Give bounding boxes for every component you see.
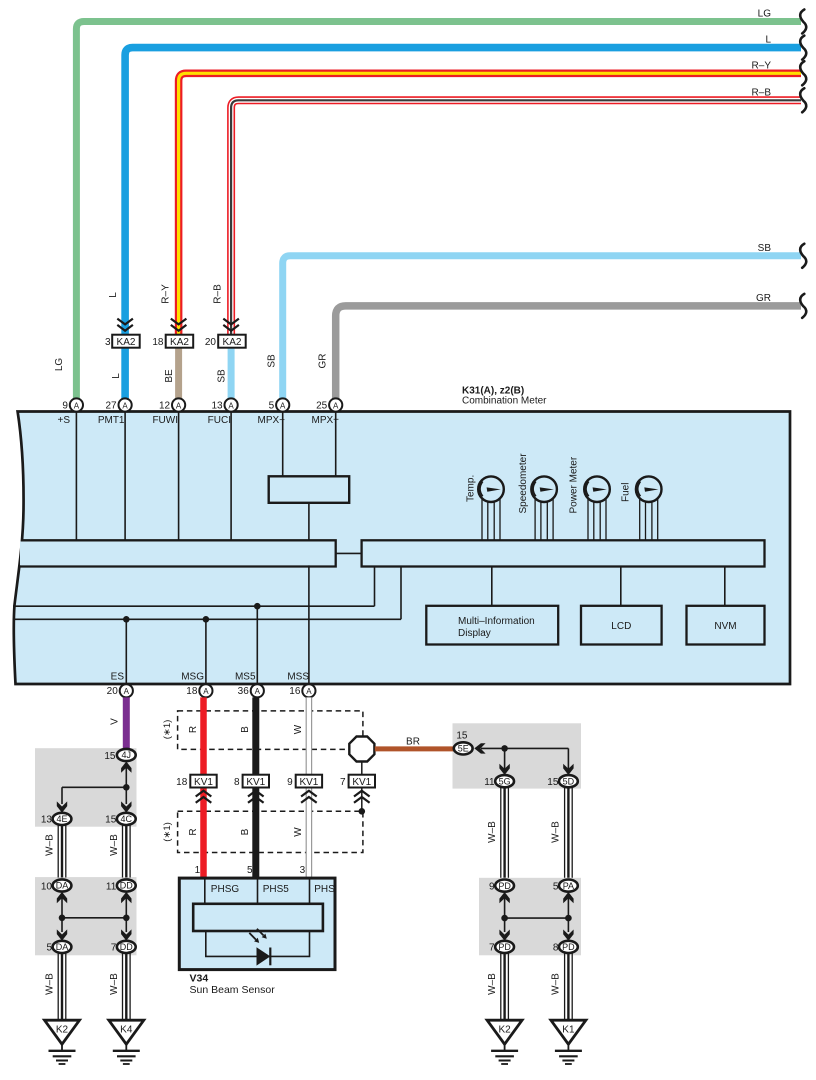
- svg-text:PD: PD: [498, 942, 511, 952]
- ground K4 left: [109, 1020, 144, 1064]
- arrow into 4C: [121, 801, 131, 812]
- wire bus to rail 2: [400, 567, 402, 620]
- svg-text:11: 11: [484, 777, 495, 788]
- svg-text:K2: K2: [56, 1025, 69, 1036]
- wire DA-DD link: [62, 898, 126, 932]
- continuation mark L: [800, 36, 806, 60]
- svg-text:10: 10: [41, 881, 53, 892]
- arrow into PD(8): [563, 930, 573, 941]
- junction 5E line: [501, 745, 508, 752]
- svg-text:3: 3: [105, 337, 111, 348]
- svg-text:A: A: [306, 687, 312, 696]
- combination meter K31(A) z2(B) body: [14, 412, 790, 685]
- svg-text:PHS: PHS: [314, 884, 335, 895]
- svg-text:12: 12: [159, 400, 171, 411]
- wire MSS internal (MPX block to pin 16): [308, 503, 310, 686]
- arrow into DD(7): [121, 929, 131, 940]
- wire W-B (PD to K2): [501, 953, 509, 1020]
- svg-text:18: 18: [176, 777, 188, 788]
- arrow into PD(9): [499, 892, 509, 903]
- wire junction to 4E branch: [62, 787, 126, 804]
- wire W (white) upper: [306, 697, 311, 775]
- svg-text:PHSG: PHSG: [211, 884, 240, 895]
- wire R-Y (red/yellow): [179, 73, 801, 335]
- octagon joint connector: [349, 737, 374, 762]
- svg-text:5E: 5E: [458, 744, 469, 754]
- svg-text:36: 36: [238, 686, 250, 697]
- svg-text:FUCI: FUCI: [208, 415, 231, 426]
- svg-text:7: 7: [111, 943, 117, 954]
- wire MPX- internal: [282, 412, 284, 476]
- option dashed box (*1) upper: [178, 711, 363, 750]
- arrow into 5D: [563, 764, 573, 775]
- svg-text:20: 20: [205, 337, 217, 348]
- svg-text:9: 9: [489, 881, 495, 892]
- svg-text:A: A: [280, 401, 286, 410]
- svg-text:R–Y: R–Y: [161, 284, 172, 304]
- junction below 4J: [123, 784, 130, 791]
- svg-text:9: 9: [62, 400, 68, 411]
- svg-text:4J: 4J: [122, 750, 132, 760]
- internal bus bar (right): [362, 540, 765, 566]
- svg-text:KV1: KV1: [246, 777, 265, 788]
- bus link wire: [336, 552, 362, 554]
- svg-text:LCD: LCD: [611, 621, 631, 632]
- svg-text:7: 7: [489, 943, 495, 954]
- connector KV1 (pin 7): [340, 775, 375, 788]
- svg-text:DD: DD: [120, 881, 133, 891]
- svg-text:DA: DA: [56, 881, 69, 891]
- svg-text:A: A: [333, 401, 339, 410]
- pin 36 (MS5): [238, 684, 264, 697]
- connector KV1 (pin 9): [287, 775, 322, 788]
- svg-text:15: 15: [104, 751, 116, 762]
- pin 12 (FUWI): [152, 398, 185, 426]
- junction PA link: [565, 915, 572, 922]
- rail 1: [13, 605, 375, 607]
- connector PD-7: [489, 941, 514, 954]
- connector 5G: [484, 775, 514, 788]
- svg-text:K1: K1: [562, 1025, 575, 1036]
- wire FUWI internal: [178, 412, 180, 540]
- svg-text:R–B: R–B: [752, 87, 772, 98]
- svg-text:PD: PD: [498, 881, 511, 891]
- wire bus to Multi-Information Display: [491, 567, 493, 606]
- svg-text:A: A: [203, 687, 209, 696]
- wires Speedometer gauge to bus: [535, 497, 553, 540]
- wire SB (sky blue): [283, 256, 801, 399]
- connector 4E: [41, 813, 72, 826]
- continuation mark R-Y: [800, 61, 806, 85]
- wire KV1 pin7 to dashed box: [361, 788, 363, 812]
- svg-text:R–Y: R–Y: [752, 60, 772, 71]
- svg-text:PHS5: PHS5: [263, 884, 290, 895]
- wire octagon to KV1 pin7: [361, 762, 363, 775]
- svg-text:4E: 4E: [56, 814, 67, 824]
- svg-text:3: 3: [300, 865, 306, 876]
- wire W-B (5D to PA): [565, 788, 573, 878]
- svg-text:SB: SB: [267, 354, 278, 368]
- pin 13 (FUCI): [208, 398, 238, 426]
- svg-text:L: L: [108, 292, 119, 298]
- svg-text:MS5: MS5: [235, 672, 256, 683]
- junction PD link: [501, 915, 508, 922]
- wires Power Meter gauge to bus: [588, 497, 606, 540]
- connector KV1 arrow (pin 9): [301, 791, 317, 803]
- svg-text:W: W: [293, 724, 304, 734]
- svg-text:L: L: [765, 35, 771, 46]
- wire bus to LCD: [620, 567, 622, 606]
- svg-text:KA2: KA2: [223, 337, 242, 348]
- junction DD link: [123, 915, 130, 922]
- svg-text:GR: GR: [756, 293, 771, 304]
- connector KA2 (pin 18): [152, 335, 193, 348]
- junction MS5: [254, 603, 261, 610]
- wire GR (gray): [336, 306, 801, 399]
- wire 4J to junction: [125, 765, 127, 787]
- svg-text:(∗1): (∗1): [162, 822, 173, 842]
- arrow into 4E: [57, 801, 67, 812]
- svg-text:PA: PA: [563, 881, 574, 891]
- svg-text:KV1: KV1: [194, 777, 213, 788]
- svg-text:B: B: [240, 726, 251, 733]
- ground K1 right: [551, 1020, 586, 1064]
- svg-text:27: 27: [105, 400, 117, 411]
- pin 16 (MSS): [289, 684, 315, 697]
- wire PD-PA link: [505, 898, 569, 932]
- svg-text:MPX−: MPX−: [257, 415, 285, 426]
- sun beam sensor V34 body: [179, 878, 335, 970]
- MPX interface block: [269, 476, 350, 503]
- svg-text:Display: Display: [458, 628, 491, 639]
- connector DA-10: [41, 879, 72, 892]
- connector 4C: [105, 813, 136, 826]
- svg-text:A: A: [255, 687, 261, 696]
- svg-text:5D: 5D: [563, 776, 575, 786]
- svg-text:W–B: W–B: [109, 834, 120, 856]
- svg-text:+S: +S: [57, 415, 70, 426]
- pin 27 (PMT1): [98, 398, 132, 426]
- svg-text:SB: SB: [217, 369, 228, 383]
- svg-text:5: 5: [46, 943, 52, 954]
- arrow into DA(10): [57, 892, 67, 903]
- svg-text:L: L: [111, 373, 122, 379]
- svg-text:R: R: [188, 828, 199, 835]
- sensor cell dividers: [205, 880, 310, 904]
- pin 18 (MSG): [186, 684, 212, 697]
- svg-text:W–B: W–B: [551, 821, 562, 843]
- wire PMT1 internal: [124, 412, 126, 540]
- svg-text:MSG: MSG: [181, 672, 204, 683]
- ground K2 right: [487, 1020, 522, 1064]
- rail 2: [13, 618, 402, 620]
- svg-text:Multi–Information: Multi–Information: [458, 616, 535, 627]
- svg-text:25: 25: [316, 400, 328, 411]
- svg-text:5: 5: [247, 865, 253, 876]
- connector KV1 arrow (pin 7): [354, 791, 370, 803]
- svg-text:W–B: W–B: [109, 973, 120, 995]
- wires Temp. gauge to bus: [482, 497, 500, 540]
- svg-text:ES: ES: [111, 672, 125, 683]
- internal bus bar (left): [20, 540, 336, 566]
- svg-text:DD: DD: [120, 942, 133, 952]
- LCD block: [581, 606, 662, 645]
- junction DA link: [59, 915, 66, 922]
- connector KA2 arrow (pin 3): [117, 319, 133, 331]
- wire B (black) upper: [252, 697, 259, 775]
- photodiode: [249, 929, 270, 966]
- junction on dashed box: [359, 808, 366, 815]
- svg-text:Combination Meter: Combination Meter: [462, 396, 547, 407]
- wires Fuel gauge to bus: [640, 497, 658, 540]
- svg-text:KV1: KV1: [352, 777, 371, 788]
- continuation mark GR: [800, 294, 806, 318]
- connector KV1 arrow (pin 18): [196, 791, 212, 803]
- svg-text:PMT1: PMT1: [98, 415, 125, 426]
- junction ES: [123, 616, 130, 623]
- connector KA2 (pin 20): [205, 335, 246, 348]
- sensor internal wiring: [206, 931, 310, 956]
- svg-text:SB: SB: [758, 243, 772, 254]
- pin 5 (MPX&#8722;): [257, 398, 289, 426]
- svg-text:A: A: [176, 401, 182, 410]
- wire R (red) upper: [200, 697, 207, 775]
- gauge Fuel: [636, 476, 662, 502]
- arrow into DA(5): [57, 929, 67, 940]
- left relay block shading (lower): [35, 877, 137, 955]
- svg-text:5: 5: [269, 400, 275, 411]
- wire SB below KA2: [228, 347, 235, 399]
- svg-text:W–B: W–B: [487, 821, 498, 843]
- left relay block shading (upper): [35, 748, 137, 827]
- wire bus to rail 1: [374, 567, 376, 607]
- wire V (violet): [123, 697, 130, 749]
- wire MSG internal: [205, 619, 207, 686]
- svg-text:15: 15: [105, 815, 117, 826]
- right relay block shading (upper): [453, 723, 582, 788]
- svg-text:18: 18: [186, 686, 198, 697]
- connector 4J: [117, 749, 136, 761]
- svg-text:K2: K2: [498, 1025, 511, 1036]
- connector PD-8: [553, 941, 578, 954]
- wire 5E to 5D: [481, 748, 568, 770]
- svg-text:V: V: [109, 718, 120, 725]
- connector DD-11: [106, 879, 136, 892]
- continuation mark LG: [800, 10, 806, 34]
- wire B (black) lower: [252, 787, 259, 878]
- option dashed box (*1) lower: [178, 811, 363, 852]
- wire W-B (DA to K2): [58, 953, 66, 1020]
- connector KV1 (pin 8): [234, 775, 269, 788]
- connector PA-5: [553, 880, 578, 893]
- continuation mark SB: [800, 244, 806, 268]
- wire R-B (red/black): [231, 100, 801, 335]
- svg-text:NVM: NVM: [714, 621, 736, 632]
- connector PD-9: [489, 880, 514, 893]
- svg-text:18: 18: [152, 337, 164, 348]
- svg-text:B: B: [240, 828, 251, 835]
- right relay block shading (lower): [479, 878, 581, 956]
- wire W (white) lower: [306, 787, 311, 878]
- svg-text:13: 13: [211, 400, 223, 411]
- svg-text:Temp.: Temp.: [466, 475, 477, 502]
- arrow into PD(7): [499, 930, 509, 941]
- svg-text:R: R: [188, 726, 199, 733]
- svg-text:9: 9: [287, 777, 293, 788]
- svg-text:LG: LG: [54, 358, 65, 372]
- svg-text:FUWI: FUWI: [152, 415, 178, 426]
- svg-text:GR: GR: [318, 354, 329, 369]
- svg-text:Power Meter: Power Meter: [568, 456, 579, 513]
- svg-text:BE: BE: [164, 369, 175, 383]
- svg-text:KA2: KA2: [117, 337, 136, 348]
- svg-text:Fuel: Fuel: [621, 483, 632, 502]
- wire L below KA2: [121, 347, 129, 399]
- pin 20 (ES): [107, 684, 133, 697]
- svg-text:5: 5: [553, 881, 559, 892]
- svg-text:5G: 5G: [499, 776, 511, 786]
- wire W-B (PD to K1): [565, 953, 573, 1020]
- svg-text:(∗1): (∗1): [162, 720, 173, 740]
- connector KA2 arrow (pin 18): [171, 319, 187, 331]
- svg-text:W–B: W–B: [45, 834, 56, 856]
- connector DD-7: [111, 941, 136, 954]
- svg-text:R–B: R–B: [213, 284, 224, 304]
- svg-text:K4: K4: [120, 1025, 133, 1036]
- arrow into PA(5): [563, 892, 573, 903]
- svg-text:20: 20: [107, 686, 119, 697]
- arrow into DD(11): [121, 892, 131, 903]
- svg-text:8: 8: [553, 943, 559, 954]
- wire L (blue): [125, 48, 801, 335]
- svg-text:15: 15: [547, 777, 559, 788]
- svg-text:8: 8: [234, 777, 240, 788]
- pin 25 (MPX+): [311, 398, 342, 426]
- Multi-Information Display block: [426, 606, 558, 645]
- junction MSG: [203, 616, 210, 623]
- wire MPX+ internal: [335, 412, 337, 476]
- connector KV1 (pin 18): [176, 775, 217, 788]
- svg-text:PD: PD: [562, 942, 575, 952]
- gauge Speedometer: [531, 476, 557, 502]
- NVM block: [687, 606, 765, 645]
- svg-text:A: A: [122, 401, 128, 410]
- svg-text:13: 13: [41, 815, 53, 826]
- svg-text:V34: V34: [190, 973, 209, 985]
- continuation mark R-B: [800, 88, 806, 112]
- svg-text:16: 16: [289, 686, 301, 697]
- svg-text:W–B: W–B: [45, 973, 56, 995]
- svg-text:BR: BR: [406, 736, 420, 747]
- svg-text:Sun Beam Sensor: Sun Beam Sensor: [190, 984, 276, 996]
- wire LG (light green): [76, 22, 801, 400]
- wire FUCI internal: [230, 412, 232, 540]
- ground K2 left: [45, 1020, 80, 1064]
- wire W-B (4E to DA): [58, 825, 66, 877]
- svg-text:1: 1: [195, 865, 201, 876]
- svg-text:11: 11: [106, 881, 117, 892]
- svg-text:KV1: KV1: [299, 777, 318, 788]
- connector 5E: [454, 742, 473, 754]
- connector DA-5: [46, 941, 71, 954]
- svg-text:W: W: [293, 827, 304, 837]
- wire W-B (5G to PD): [501, 788, 509, 878]
- gauge Temp.: [478, 476, 504, 502]
- svg-text:7: 7: [340, 777, 346, 788]
- wire BR (brown): [375, 746, 455, 751]
- arrow into 5G: [499, 764, 509, 775]
- svg-text:DA: DA: [56, 942, 69, 952]
- wire MS5 internal: [256, 606, 258, 686]
- svg-text:A: A: [228, 401, 234, 410]
- svg-text:W–B: W–B: [487, 973, 498, 995]
- connector KV1 arrow (pin 8): [248, 791, 264, 803]
- svg-text:A: A: [74, 401, 80, 410]
- svg-text:4C: 4C: [121, 814, 133, 824]
- wire bus to NVM: [724, 567, 726, 606]
- wire BE below KA2: [175, 347, 182, 399]
- gauge Power Meter: [584, 476, 610, 502]
- svg-text:KA2: KA2: [170, 337, 189, 348]
- connector 5D: [547, 775, 578, 788]
- svg-text:LG: LG: [758, 9, 772, 20]
- sensor inner block: [193, 904, 323, 931]
- wire W-B (DD to K4): [123, 953, 131, 1020]
- arrow into 4J: [121, 762, 131, 773]
- svg-text:A: A: [124, 687, 130, 696]
- connector KA2 (pin 3): [105, 335, 140, 348]
- svg-text:Speedometer: Speedometer: [518, 453, 529, 514]
- pin 9 (+S): [57, 398, 83, 426]
- svg-text:15: 15: [456, 730, 468, 741]
- svg-text:MSS: MSS: [287, 672, 309, 683]
- arrow out of 5E: [474, 743, 485, 753]
- svg-text:W–B: W–B: [551, 973, 562, 995]
- wire R (red) lower: [200, 787, 207, 878]
- wire +S internal: [75, 412, 77, 540]
- wire W-B (4C to DD): [123, 825, 131, 877]
- wire ES internal: [125, 619, 127, 686]
- connector KA2 arrow (pin 20): [223, 319, 239, 331]
